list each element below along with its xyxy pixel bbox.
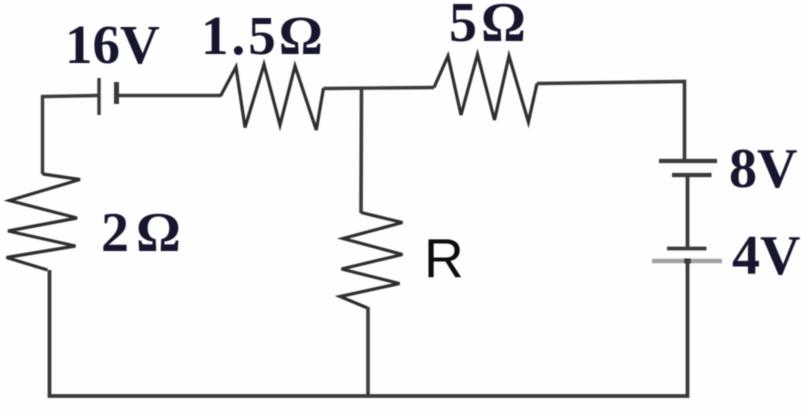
resistor 2-ohm xyxy=(7,174,81,270)
wire from 5-ohm to top-right corner xyxy=(537,82,685,160)
resistor R xyxy=(340,213,403,309)
svg-text:1.5Ω: 1.5Ω xyxy=(201,5,326,66)
wire from 4V to bottom-right corner xyxy=(368,261,688,396)
node junction vertical wire down to resistor R xyxy=(359,88,363,213)
wire bottom segment left xyxy=(50,270,369,396)
svg-text:4V: 4V xyxy=(732,225,800,287)
wire top-left segment and left vertical upper lead xyxy=(43,96,98,175)
wire from 16V to 1.5-ohm resistor xyxy=(118,94,221,97)
resistor 5-ohm xyxy=(434,55,537,123)
svg-text:2Ω: 2Ω xyxy=(101,202,188,264)
svg-text:8V: 8V xyxy=(729,138,797,200)
wire from resistor R down to bottom wire xyxy=(366,307,370,396)
svg-text:16V: 16V xyxy=(65,14,160,75)
wire from 1.5-ohm through node to 5-ohm resistor xyxy=(324,88,435,89)
svg-text:5Ω: 5Ω xyxy=(449,0,530,54)
battery 16V xyxy=(99,78,117,115)
svg-text:R: R xyxy=(424,227,464,289)
battery 4V xyxy=(652,249,722,264)
wire between 8V and 4V batteries xyxy=(686,175,690,248)
battery 8V xyxy=(659,161,717,175)
resistor 1.5-ohm xyxy=(221,65,324,131)
